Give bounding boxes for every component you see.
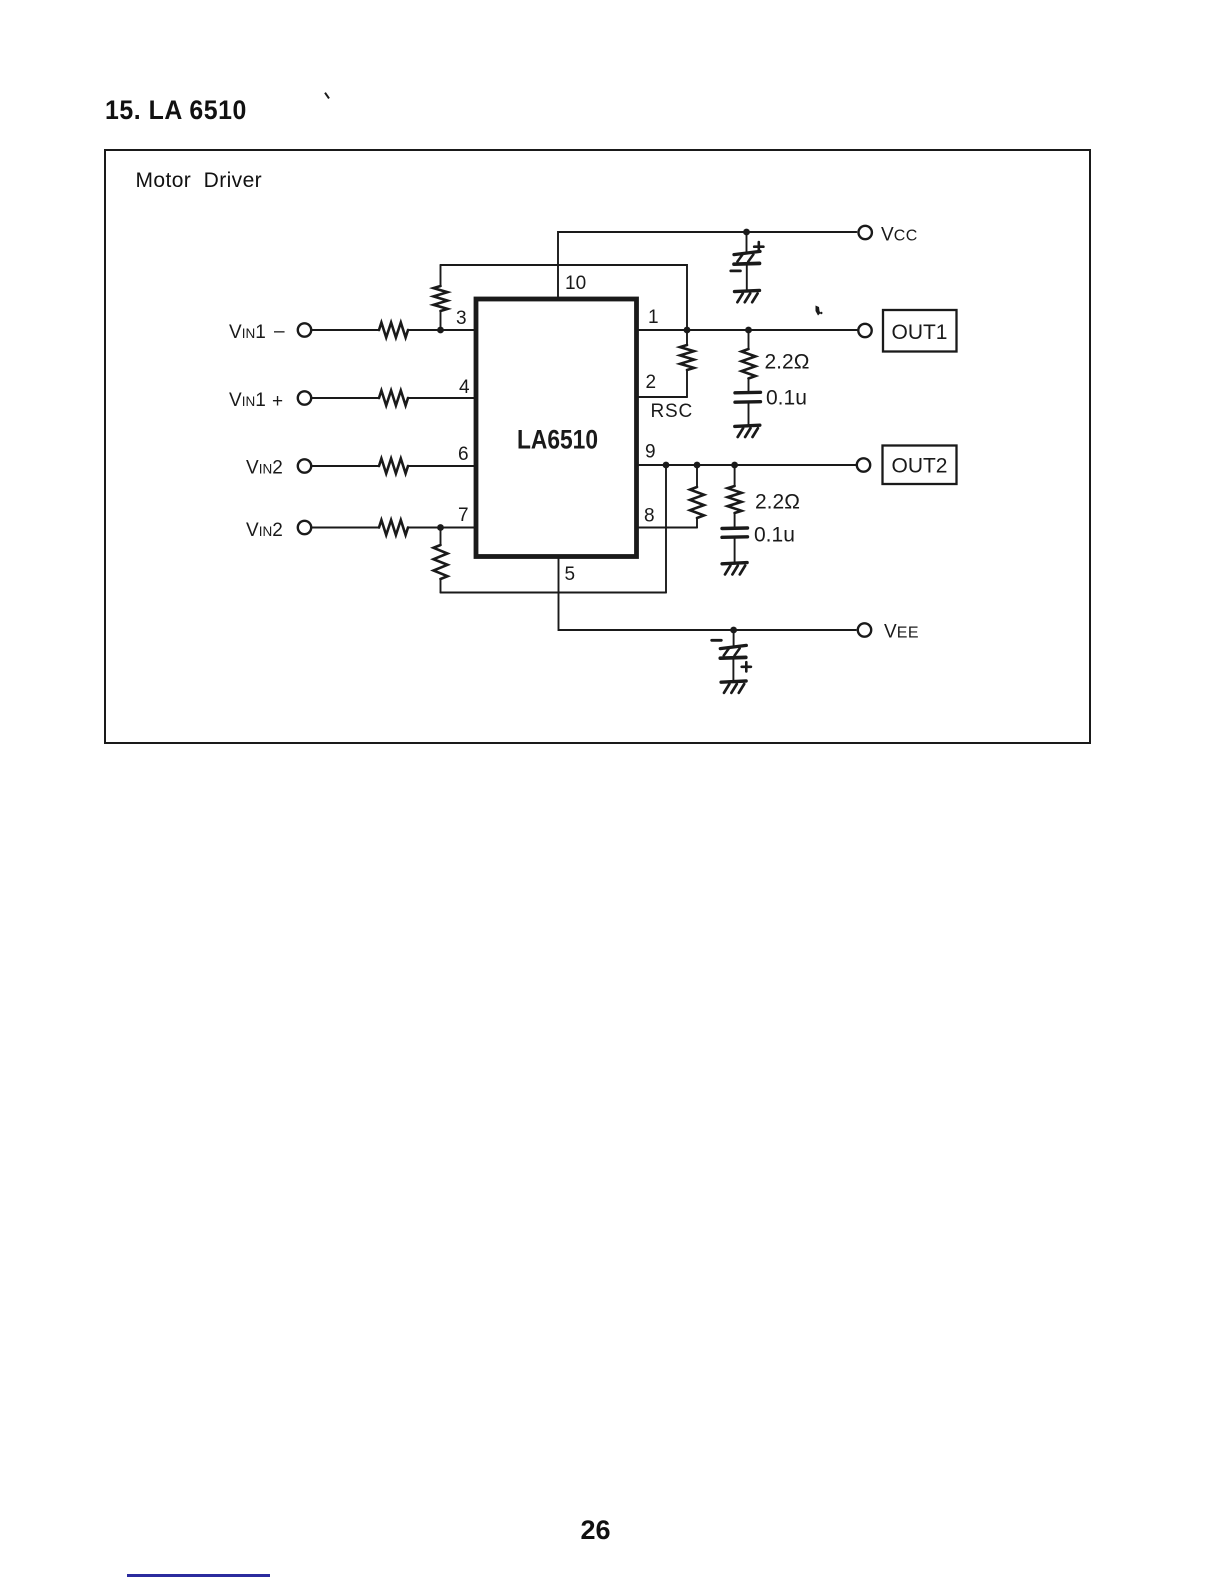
capacitor 0.1u (OUT2 snubber) (722, 526, 748, 530)
svg-text:1: 1 (648, 307, 659, 328)
capacitor C-VCC electrolytic (746, 232, 748, 253)
OUT2 terminal (857, 458, 870, 471)
ground (OUT2 snubber) (722, 563, 747, 564)
node pin9 snubber junction (731, 462, 738, 469)
node pin7 junction (437, 524, 444, 531)
wire VIN2 input (pin 7) (312, 527, 380, 529)
resistor RSC (pin1-pin2) (686, 330, 688, 345)
VCC terminal (859, 226, 872, 239)
op-amp U1 LA6510 IC body (476, 299, 637, 557)
wire pin 2 (639, 396, 687, 398)
VIN2a terminal (298, 459, 311, 472)
resistor R-fb2 (pin 7 feedback) (440, 528, 442, 546)
svg-text:5: 5 (565, 564, 576, 585)
wire feedback2 vertical (665, 465, 667, 593)
svg-text:3: 3 (456, 308, 467, 329)
svg-text:2.2Ω: 2.2Ω (765, 351, 810, 374)
svg-text:+: + (272, 391, 283, 412)
wire VIN1+ input (312, 397, 380, 399)
OUT1 terminal (858, 324, 871, 337)
wire pin 1 to OUT1 (639, 329, 857, 331)
node pin9/R junction (694, 462, 701, 469)
resistor R-fb1 (pin 3 feedback) (440, 265, 442, 286)
VEE terminal (858, 623, 871, 636)
node VEE cap tap (730, 627, 737, 634)
wire pin 5 / VEE rail (559, 557, 857, 630)
svg-text:–: – (274, 321, 285, 342)
svg-text:LA6510: LA6510 (517, 425, 598, 455)
wire VIN1+ to pin 4 (408, 397, 474, 399)
resistor R98 (pin9-pin8) (696, 465, 698, 487)
frame border (104, 149, 1091, 744)
wire VCC rail (558, 232, 857, 297)
svg-text:VIN2: VIN2 (246, 458, 283, 479)
ground (VEE cap) (721, 681, 746, 682)
node OUT2 box (883, 446, 957, 485)
resistor 2.2ohm (OUT2 snubber) (734, 465, 736, 486)
wire VIN1- to pin 3 (408, 329, 474, 331)
speck near OUT1 line (816, 306, 821, 316)
svg-text:9: 9 (645, 442, 656, 463)
wire VIN2 to pin 7 (408, 527, 474, 529)
title 15. LA 6510 (105, 95, 247, 126)
blue underline mark (127, 1574, 270, 1577)
svg-text:2: 2 (646, 372, 657, 393)
wire feedback1 top run (441, 265, 688, 330)
resistor R-in3 (VIN2 series) (379, 459, 408, 474)
wire VIN2 input (pin 6) (312, 465, 380, 467)
svg-text:6: 6 (458, 444, 469, 465)
wire VIN2 to pin 6 (408, 465, 474, 467)
svg-text:OUT2: OUT2 (891, 455, 947, 478)
VIN1- terminal (298, 323, 311, 336)
resistor R-in2 (VIN1+ series) (379, 391, 408, 406)
resistor 2.2ohm (OUT1 snubber) (748, 330, 750, 349)
svg-text:VEE: VEE (884, 622, 919, 643)
wire VIN1- input (312, 329, 380, 331)
svg-text:10: 10 (565, 273, 586, 294)
tick mark near title (324, 92, 330, 99)
svg-text:VIN2: VIN2 (246, 520, 283, 541)
node pin9 feedback junction (663, 462, 670, 469)
svg-text:0.1u: 0.1u (766, 387, 807, 410)
node VCC cap tap (743, 229, 750, 236)
wire feedback2 bottom run (441, 592, 667, 594)
capacitor C-VEE electrolytic (733, 630, 735, 647)
svg-text:8: 8 (644, 506, 655, 527)
page number (581, 1515, 611, 1546)
svg-text:OUT1: OUT1 (891, 321, 947, 344)
wire pin 8 (639, 527, 697, 529)
node OUT1 box (883, 310, 957, 352)
node pin3 junction (437, 327, 444, 334)
svg-text:RSC: RSC (651, 401, 694, 422)
svg-text:4: 4 (459, 377, 470, 398)
node pin1/RSC junction (684, 327, 691, 334)
VIN1+ terminal (298, 391, 311, 404)
label Motor Driver (136, 169, 263, 193)
ground (VCC cap) (735, 290, 760, 291)
resistor R-in4 (VIN2 series) (379, 520, 408, 535)
svg-text:7: 7 (458, 505, 469, 526)
svg-text:0.1u: 0.1u (754, 524, 795, 547)
capacitor 0.1u (OUT1 snubber) (735, 391, 761, 395)
node pin1 snubber junction (745, 327, 752, 334)
VIN2b terminal (298, 521, 311, 534)
svg-text:2.2Ω: 2.2Ω (755, 491, 800, 514)
wire pin 9 to OUT2 (639, 464, 857, 466)
resistor R-in1 (VIN1- series) (379, 323, 408, 338)
svg-text:VCC: VCC (881, 225, 918, 246)
svg-text:VIN1: VIN1 (229, 322, 266, 343)
ground (OUT1 snubber) (735, 425, 760, 426)
svg-text:VIN1: VIN1 (229, 390, 266, 411)
